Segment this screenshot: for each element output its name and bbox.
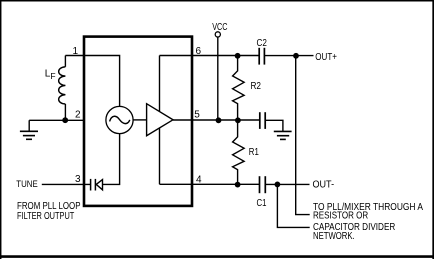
wire pin2 — [29, 119, 84, 121]
svg-text:R1: R1 — [249, 147, 259, 158]
resistor R2 — [233, 56, 245, 120]
node pin6/R2 junction — [235, 53, 241, 59]
op-amp buffer triangle — [147, 104, 173, 136]
svg-text:VCC: VCC — [212, 22, 227, 33]
svg-text:LF: LF — [45, 69, 56, 82]
capacitor bypass (pin5) — [259, 112, 261, 129]
svg-text:OUT-: OUT- — [313, 180, 335, 191]
svg-text:C2: C2 — [257, 38, 268, 49]
node VCC/pin5 junction — [216, 117, 222, 123]
wire VCC to pin5 — [217, 37, 219, 120]
resistor R1 — [233, 120, 245, 184]
svg-text:3: 3 — [75, 174, 81, 185]
svg-text:R2: R2 — [251, 81, 262, 92]
wire bypass cap to ground — [265, 120, 283, 131]
wire varactor to oscillator bottom — [103, 134, 120, 185]
wire inner feedback vertical — [159, 56, 161, 185]
svg-text:2: 2 — [75, 110, 81, 121]
svg-text:NETWORK.: NETWORK. — [313, 231, 355, 242]
IC box U1 — [84, 37, 192, 206]
wire pin5 output — [173, 119, 260, 121]
border frame — [0, 0, 434, 2]
svg-text:1: 1 — [72, 46, 78, 57]
svg-text:6: 6 — [196, 46, 202, 57]
varactor D1 — [90, 179, 92, 191]
node OUT- junction — [275, 182, 281, 188]
svg-text:TUNE: TUNE — [16, 179, 37, 189]
svg-text:RESISTOR OR: RESISTOR OR — [313, 211, 368, 222]
wire C1 to OUT- — [265, 183, 309, 185]
wire OUT+ rail — [296, 56, 310, 215]
svg-text:4: 4 — [196, 174, 202, 185]
capacitor C2 — [258, 48, 260, 65]
node R1/pin4 junction — [235, 182, 241, 188]
ground (right) — [274, 130, 292, 132]
node OUT+ junction — [293, 53, 299, 59]
node pin2/LF junction — [62, 117, 68, 123]
ground (left) — [28, 120, 30, 131]
sine wave — [110, 116, 130, 123]
svg-text:FILTER OUTPUT: FILTER OUTPUT — [17, 211, 74, 222]
wire pin4 to C1 — [160, 183, 260, 185]
node R2/R1 junction — [235, 117, 241, 123]
wire OUT- branch — [277, 184, 309, 227]
wire pin6 to C2 — [160, 55, 260, 57]
wire TUNE to varactor — [42, 183, 91, 185]
wire oscillator to amp — [133, 119, 147, 121]
VCC terminal — [215, 32, 220, 37]
oscillator circle — [106, 106, 133, 133]
wire pin1 to oscillator top — [65, 56, 119, 107]
inductor LF — [64, 56, 66, 67]
svg-text:C1: C1 — [257, 198, 267, 209]
svg-text:OUT+: OUT+ — [315, 52, 337, 63]
svg-text:5: 5 — [194, 110, 200, 121]
capacitor C1 — [259, 176, 261, 193]
